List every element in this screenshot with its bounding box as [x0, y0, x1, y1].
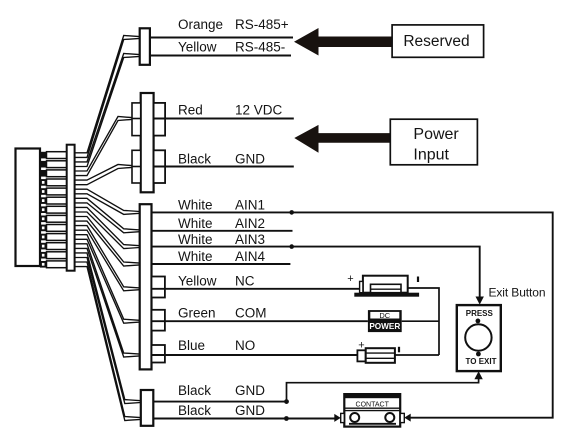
wire white AIN1 [152, 212, 553, 417]
svg-text:Yellow: Yellow [178, 40, 217, 55]
arrowhead into contact right [404, 414, 410, 422]
wire fan gnd2 [75, 262, 141, 421]
connector pin 9 [40, 225, 67, 232]
svg-text:AIN2: AIN2 [235, 216, 265, 231]
wire blue NO [152, 354, 358, 356]
wire exit button to GND1 [287, 379, 479, 402]
arrow Power Input [294, 125, 390, 153]
svg-text:POWER: POWER [369, 322, 400, 331]
door contact circle right [385, 413, 394, 422]
electric lock baseplate [354, 293, 419, 297]
wire fan ain3 [75, 207, 140, 248]
terminal block TB1 (RS-485) [140, 28, 150, 65]
svg-text:Red: Red [178, 103, 203, 118]
svg-text:+: + [347, 273, 353, 285]
svg-text:CONTACT: CONTACT [356, 401, 390, 408]
svg-text:White: White [178, 198, 213, 213]
box Power Input [390, 119, 477, 165]
connector J1 header bar [67, 145, 75, 271]
svg-text:Input: Input [413, 147, 449, 164]
arrow Reserved [294, 28, 392, 56]
electric lock body [363, 276, 408, 293]
TB3 tab NC [152, 277, 165, 298]
svg-text:RS-485+: RS-485+ [235, 17, 289, 32]
terminal block TB4 (GND) [141, 390, 154, 426]
wire fan yellow [75, 54, 140, 167]
door contact divider lines [344, 408, 400, 410]
svg-text:Black: Black [178, 403, 211, 418]
wire black GND2 [153, 418, 335, 420]
exit button box [457, 305, 501, 371]
electric lock left tab [360, 281, 363, 292]
TB3 tab COM [152, 310, 165, 331]
fuse minus tick [398, 347, 400, 353]
svg-text:+: + [358, 340, 364, 352]
svg-text:PRESS: PRESS [466, 309, 494, 318]
wire COM to junction [402, 320, 439, 322]
connector pin 8 [40, 215, 67, 222]
wire red 12VDC [154, 118, 294, 120]
electric lock inner divider [371, 288, 402, 290]
connector pin 2 [40, 161, 67, 168]
connector pin 13 [40, 261, 67, 268]
wire NC to junction [408, 288, 439, 355]
svg-text:GND: GND [235, 403, 265, 418]
door contact left tab [341, 413, 345, 422]
wire fan gnd1 [75, 253, 141, 404]
wire fan nc [75, 226, 140, 291]
connector pin 4 [40, 179, 67, 186]
exit button bottom dot [476, 352, 481, 357]
svg-text:Reserved: Reserved [403, 33, 469, 50]
svg-text:Black: Black [178, 152, 211, 167]
TB3 tab NO [152, 345, 165, 363]
svg-text:RS-485-: RS-485- [235, 40, 285, 55]
TB2 left tab red [132, 103, 141, 136]
svg-text:Orange: Orange [178, 17, 223, 32]
wire fan orange [75, 36, 140, 158]
wire black GND1 [153, 401, 286, 403]
wire white AIN4 [152, 263, 291, 265]
svg-text:DC: DC [379, 311, 390, 320]
svg-text:NC: NC [235, 274, 255, 289]
wire black GND (power) [154, 166, 294, 168]
fuse body [366, 348, 395, 363]
fuse small box [357, 350, 365, 361]
junction dot GND2 [284, 416, 289, 421]
TB2 left stub red [132, 118, 141, 120]
svg-text:AIN1: AIN1 [235, 198, 265, 213]
wire yellow RS-485- [150, 55, 291, 57]
svg-text:AIN4: AIN4 [235, 249, 266, 264]
wire green COM [152, 320, 368, 322]
DC power white band [370, 312, 399, 319]
wire fan ain2 [75, 198, 140, 233]
connector pin 5 [40, 188, 67, 195]
lock minus tick [417, 277, 419, 283]
svg-text:White: White [178, 249, 213, 264]
svg-text:Exit Button: Exit Button [489, 286, 546, 300]
arrowhead into exit button bottom [474, 371, 482, 379]
svg-text:Black: Black [178, 383, 211, 398]
door contact bottom line [349, 423, 396, 425]
TB2 tab red [154, 103, 166, 136]
terminal block TB3 [140, 204, 152, 369]
wire white AIN2 [152, 230, 293, 232]
exit button circle [465, 324, 491, 350]
connector pin 6 [40, 197, 67, 204]
svg-text:GND: GND [235, 152, 265, 167]
svg-text:Blue: Blue [178, 338, 205, 353]
junction dot AIN3 [289, 244, 294, 249]
TB2 left stub black [132, 166, 141, 168]
fuse inner lines [366, 353, 395, 358]
svg-text:NO: NO [235, 338, 255, 353]
connector pin 10 [40, 234, 67, 241]
box Reserved [392, 25, 484, 57]
wire fan black-pwr [75, 165, 132, 185]
door contact right tab [400, 413, 404, 422]
wire fan com [75, 235, 140, 324]
electric lock inner box [371, 284, 402, 292]
wire fan red [75, 117, 132, 176]
wire orange RS-485+ [150, 37, 293, 39]
wire fan ain1 [75, 189, 140, 214]
arrowhead AIN3 into exit button [476, 297, 484, 305]
connector pin 7 [40, 206, 67, 213]
svg-text:AIN3: AIN3 [235, 232, 265, 247]
arrowhead into contact left [334, 414, 340, 422]
svg-text:Yellow: Yellow [178, 274, 217, 289]
junction dot GND1 [284, 399, 289, 404]
wire white AIN3 [152, 247, 480, 297]
TB2 tab black [154, 150, 166, 183]
TB2 left tab black [132, 150, 141, 183]
exit button top dot [476, 319, 481, 324]
svg-text:Green: Green [178, 306, 216, 321]
connector J1 body [16, 149, 41, 267]
junction dot AIN1 [289, 210, 294, 215]
door contact circle left [350, 413, 359, 422]
terminal block TB2 (power) [141, 93, 154, 192]
svg-text:GND: GND [235, 383, 265, 398]
wire yellow NC [152, 288, 360, 290]
svg-text:COM: COM [235, 306, 267, 321]
door contact top bar [344, 394, 400, 398]
svg-text:Power: Power [413, 126, 459, 143]
connector pin 11 [40, 243, 67, 250]
svg-text:TO EXIT: TO EXIT [466, 357, 497, 366]
wire fan no [75, 244, 140, 357]
connector pin 1 [40, 152, 67, 159]
svg-text:12 VDC: 12 VDC [235, 103, 283, 118]
door contact box [344, 394, 400, 427]
wire NO to junction [395, 354, 439, 356]
svg-text:White: White [178, 216, 213, 231]
DC power supply box [368, 310, 402, 332]
connector pin 12 [40, 252, 67, 259]
wire fan ain4 [75, 217, 140, 267]
svg-text:White: White [178, 232, 213, 247]
connector pin 3 [40, 170, 67, 177]
